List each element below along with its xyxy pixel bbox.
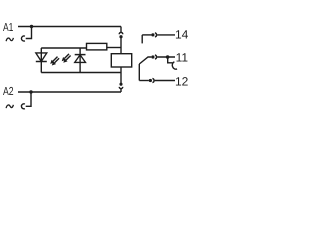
wire top rail drop to plug (120, 27, 122, 33)
socket at A2 (test plug socket) (21, 104, 24, 109)
wire resistor to coil node (107, 47, 121, 49)
wire LED block top rail (41, 47, 86, 49)
svg-text:14: 14 (175, 28, 189, 42)
wire coil feed upper (120, 37, 122, 54)
wire lever pivot to 12 (138, 64, 140, 81)
wire 14 fixed contact stub (141, 35, 143, 44)
svg-text:12: 12 (175, 75, 189, 89)
contact lever (common, shown closed to 12) (139, 57, 151, 64)
plug-in contact upper (coil pin to socket) (119, 32, 123, 34)
node A1 junction (30, 25, 33, 28)
wire A1 lead (18, 26, 121, 28)
wire coil lower (120, 67, 122, 84)
AC symbol (~) under A2 (6, 105, 13, 108)
resistor R1 (87, 43, 107, 50)
node A2 junction (29, 90, 32, 93)
AC symbol (~) under A1 (6, 38, 13, 41)
plug-in contact lower (coil pin to socket) (119, 83, 122, 86)
wire LED block bottom rail (41, 72, 121, 74)
contact 12 line (NC) (139, 80, 149, 82)
socket at A1 (test plug socket) (21, 36, 24, 41)
wire diode branch right (79, 48, 81, 73)
LED emission arrows (53, 54, 71, 63)
svg-text:A2: A2 (3, 85, 14, 98)
diode V2 (anti-parallel, cathode up) (75, 55, 86, 63)
wire A2 lead (18, 91, 121, 93)
svg-text:A1: A1 (3, 21, 13, 34)
contact 14 line (NO) (142, 34, 151, 36)
node 11 junction (166, 55, 170, 59)
wire LED branch left (40, 48, 42, 73)
svg-text:11: 11 (176, 51, 189, 65)
contact spring hook at 11 (168, 57, 173, 63)
wire A1 test-socket stub (26, 27, 32, 39)
LED V1 (indicator, cathode down) (36, 53, 47, 62)
relay coil K1 (111, 54, 131, 67)
wire A2 test-socket stub (26, 92, 31, 106)
